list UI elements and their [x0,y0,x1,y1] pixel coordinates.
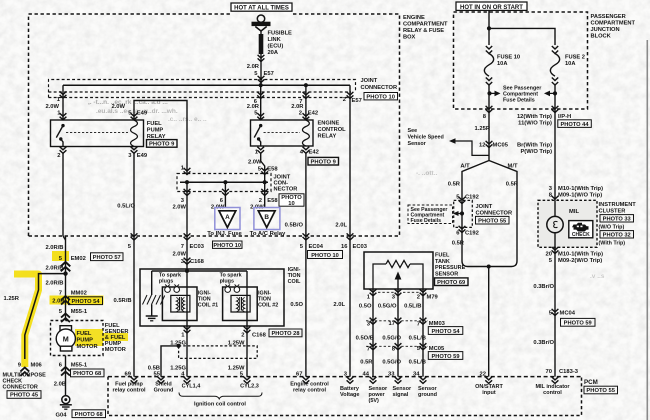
svg-text:0.5L/B: 0.5L/B [409,336,426,342]
svg-text:(ECU): (ECU) [268,44,284,50]
engine control relay E42 [251,120,314,146]
svg-text:2: 2 [57,153,60,159]
svg-text:JUNCTION: JUNCTION [591,27,620,33]
engine control relay label [318,121,347,140]
instrument cluster dashed box [538,200,597,247]
svg-text:COIL #2: COIL #2 [258,303,278,309]
svg-text:PHOTO 54: PHOTO 54 [431,329,460,335]
svg-text:E57: E57 [264,71,274,77]
svg-text:16: 16 [341,244,348,250]
node merge [487,265,491,269]
label Br / P wire colors [517,143,552,156]
svg-text:2.0R: 2.0R [291,104,304,110]
passenger compartment junction block (dashed box) [454,12,588,109]
connector MC04 pin5 [549,309,595,327]
svg-text:M55-1: M55-1 [71,363,88,369]
internal feed bus [152,270,247,272]
pin 1 entering E58 [184,168,191,175]
svg-text:C192: C192 [465,195,479,201]
svg-text:BOX: BOX [403,35,416,41]
svg-text:2.0R: 2.0R [247,64,260,70]
svg-text:signal: signal [393,392,409,398]
svg-text:17: 17 [389,321,395,327]
svg-text:Fuse Details: Fuse Details [411,218,442,224]
svg-text:2.0R: 2.0R [247,104,260,110]
svg-text:NECTOR: NECTOR [274,187,298,193]
PCM pin 70 C183-3 [546,369,579,375]
passenger compartment label [591,14,636,40]
svg-text:E58: E58 [267,198,278,204]
svg-text:0.3Br/O: 0.3Br/O [533,340,554,346]
svg-text:2.0R/B: 2.0R/B [45,281,63,287]
svg-text:(5V): (5V) [369,398,380,404]
node E58 pin6 [223,180,227,184]
svg-text:M55-1: M55-1 [71,309,88,315]
svg-text:PHOTO 57: PHOTO 57 [93,255,121,261]
svg-text:2: 2 [259,198,262,204]
svg-text:C168: C168 [190,259,205,265]
svg-text:-. ..ott..: -. ..ott.. [416,170,437,177]
svg-text:2: 2 [343,97,346,103]
node at E42 coil feed [304,83,308,87]
shield drain wire to PCM 55 [161,346,179,377]
svg-text:PHOTO 68: PHOTO 68 [73,371,101,377]
svg-text:7: 7 [367,347,370,353]
svg-text:FUSIBLE: FUSIBLE [268,31,293,37]
svg-text:RELAY & FUSE: RELAY & FUSE [403,28,444,34]
svg-text:FUEL: FUEL [435,253,450,259]
sensor wiper arrow [395,272,402,290]
svg-text:0.5R/B: 0.5R/B [114,298,132,304]
svg-text:SENSOR: SENSOR [435,271,458,277]
fuel pump relay E49 [51,120,144,147]
connector MM03 pins 3 17 7 [366,318,463,335]
main power bus wire [63,84,350,86]
svg-text:EC03: EC03 [353,244,368,250]
scan noise [0,0,1,1]
svg-text:2.0W: 2.0W [45,104,59,110]
svg-text:10A: 10A [497,61,507,67]
connector MM02 pin7 [59,291,87,305]
node C168 feed [185,269,189,273]
wire E57 pin7 to engine control relay coil [305,85,307,120]
svg-text:E49: E49 [137,153,148,159]
cable shield dashed loop [179,346,258,359]
svg-text:0.3Br/O: 0.3Br/O [533,284,554,290]
fuel pump relay bottom pins 2 / 3 E49 [57,147,148,159]
svg-text:2.0W: 2.0W [111,104,125,110]
sensor resistor [386,260,410,267]
right page border [646,40,648,420]
svg-text:M10-1(With Trip): M10-1(With Trip) [558,252,603,258]
svg-text:BLOCK: BLOCK [591,34,612,40]
label To spark plugs (coil 2) [220,273,242,285]
svg-text:0.5O/B: 0.5O/B [356,336,374,342]
svg-text:0.5R: 0.5R [448,182,461,188]
joint connector C192 label [476,204,513,224]
svg-text:PHOTO 68: PHOTO 68 [75,412,103,418]
svg-text:7: 7 [181,244,184,250]
connector EC04 pin5 [300,153,343,376]
branch to vehicle speed sensor [449,138,489,155]
wire E57 pin2 battery voltage drop (2.0L) [349,85,351,376]
connector E57 crossing [258,76,265,83]
svg-text:20: 20 [546,252,552,258]
svg-text:PUMP: PUMP [77,338,94,344]
wire labels row 3 [360,360,426,366]
svg-text:PHOTO 55: PHOTO 55 [586,388,615,394]
connector exit I/P-H [517,106,591,200]
svg-text:PHOTO 59: PHOTO 59 [431,354,459,360]
svg-text:2.0R: 2.0R [52,299,65,305]
ignition coil #1 label [198,291,218,309]
inner fuse-box dashed outline (top of relay area) [49,80,356,98]
svg-text:E57: E57 [352,98,362,104]
connector MC05 pins 7 8 5 [366,343,463,360]
svg-text:M09-1(W/O Trip): M09-1(W/O Trip) [558,193,602,199]
svg-text:2.0L: 2.0L [335,223,347,229]
engine control relay switch [254,124,262,146]
svg-text:FUEL: FUEL [77,331,92,337]
fuse 2 10A [550,46,559,109]
svg-text:CLUSTER: CLUSTER [599,209,626,215]
wire labels row 1 [359,304,422,310]
engine compartment box label [403,15,448,41]
svg-text:2: 2 [299,110,302,116]
fuel tank pressure sensor box [364,252,433,289]
wire E58 feed line to fuel pump relay coil [134,101,187,174]
svg-text:(W/O Trip): (W/O Trip) [599,225,625,231]
wire bus left corner down to fuel pump relay pin 1 [62,85,64,120]
wire E58 pin3 down to EC03 [186,182,188,271]
node E58 pin1 [185,180,189,184]
label 2.0R + PHOTO 54 [52,297,102,305]
svg-text:MOTOR: MOTOR [77,344,98,350]
svg-text:69: 69 [125,372,132,378]
MIL bulb [547,200,563,248]
fuse 10 10A [484,46,493,109]
connector C192 pin5 [456,195,479,204]
svg-text:10A: 10A [565,61,575,67]
engine control relay PHOTO 9 [308,157,339,165]
node shield drain [177,344,181,348]
svg-text:20A: 20A [268,50,278,56]
wire 2.0W to C168 pin3 [172,252,204,266]
svg-text:.v ..s: .v ..s [590,273,605,280]
fusible link FL(ECU) 20A [258,31,265,85]
shield drop wire [151,271,153,295]
svg-text:34: 34 [413,372,420,378]
svg-text:MC05: MC05 [493,143,509,149]
fusible link label [268,31,293,57]
svg-text:PHOTO 10: PHOTO 10 [311,253,339,259]
svg-text:FUSE 2: FUSE 2 [565,55,585,61]
svg-text:PRESSURE: PRESSURE [435,265,466,271]
svg-text:TANK: TANK [435,259,450,265]
svg-text:PHOTO 45: PHOTO 45 [10,393,38,399]
svg-text:44: 44 [363,372,370,378]
ignition coil #2 label [258,291,278,309]
svg-text:See: See [408,128,418,134]
highlight 2.0R PHOTO 54 (yellow) [50,296,104,305]
scan bleed-through ghost text [88,99,605,280]
svg-text:MOTOR: MOTOR [105,347,126,353]
svg-text:0.5G/O: 0.5G/O [382,336,401,342]
svg-text:1.25R: 1.25R [4,296,20,302]
svg-text:70: 70 [546,369,552,375]
spark tower chevrons coil 1 [165,285,179,287]
connector M06 pin9 [18,363,43,377]
svg-text:control: control [543,390,562,396]
svg-text:0.5R: 0.5R [452,241,465,247]
multipurpose check connector label [3,373,47,391]
sensor internal left leg [373,264,386,289]
wire through C192 [461,200,463,261]
ignition coil #1 unit [162,287,197,321]
node E58 pin5 [263,180,267,184]
svg-text:CONTROL: CONTROL [318,127,347,133]
svg-text:HOT AT ALL TIMES: HOT AT ALL TIMES [234,6,289,12]
connector M55-1 pin5 [59,309,88,322]
wire E42 pin1 to joint connector E58 [261,153,265,182]
svg-text:PUMP: PUMP [147,128,164,134]
svg-text:0.5G/O: 0.5G/O [378,304,397,310]
svg-text:plugs: plugs [220,279,234,285]
svg-text:(With Trip): (With Trip) [599,241,626,247]
multipurpose PHOTO 45 [7,391,41,399]
joint connector E58 bus [180,181,268,183]
wire below border to EM02 [65,236,67,321]
svg-text:M10-1(With Trip): M10-1(With Trip) [558,186,603,192]
ref triangle B box [254,208,280,230]
wire to multipurpose check connector M06 [25,274,66,359]
svg-text:0.5O: 0.5O [359,304,372,310]
joint connector E58 dashed box [177,174,271,192]
wire from HOT IN ON OR START [488,11,490,46]
connector EM02 pin5 [59,253,123,271]
label HOT IN ON OR START [456,2,527,11]
svg-text:22: 22 [480,372,486,378]
svg-text:MC04: MC04 [560,311,576,317]
svg-text:PHOTO 28: PHOTO 28 [271,331,299,337]
ground G04 label [56,410,106,419]
svg-text:2.0W: 2.0W [172,205,186,211]
connector exit pin 8 [475,106,493,161]
spark tower chevrons coil 2 [225,285,239,287]
svg-text:ground: ground [418,392,437,398]
svg-text:0.5L/B: 0.5L/B [404,304,421,310]
svg-text:Fuse Details: Fuse Details [503,98,535,104]
wire MIL control down [554,248,556,377]
svg-text:2.0W: 2.0W [248,160,262,166]
wire E57 pin6 to engine control relay switch [260,85,262,120]
fuse 2 label [565,55,585,68]
svg-text:E49: E49 [137,110,148,116]
svg-text:12: 12 [479,143,485,149]
svg-text:EM02: EM02 [71,256,86,262]
svg-text:COIL: COIL [288,279,302,285]
ignition coil outside label [288,267,302,285]
connector C192 pin6 [456,226,479,237]
svg-text:ENGINE: ENGINE [403,15,425,21]
svg-text:PHOTO 32: PHOTO 32 [603,233,631,239]
svg-text:To INJ. Fuse: To INJ. Fuse [207,231,242,237]
highlight FUEL PUMP MOTOR text (yellow) [75,329,128,346]
svg-text:CONNECTOR: CONNECTOR [3,385,38,391]
joint connector E57 dashed bus box [49,92,352,98]
svg-text:JOINT: JOINT [361,78,378,84]
PCM box (dashed) [108,377,582,416]
svg-text:G04: G04 [56,413,68,419]
svg-text:E58: E58 [267,167,278,173]
fuel pump relay coil [131,120,138,147]
svg-text:input: input [482,390,496,396]
PCM function labels [112,382,570,405]
svg-text:M09-2(W/O Trip): M09-2(W/O Trip) [558,258,602,264]
svg-text:EC04: EC04 [309,244,324,250]
svg-text:M79: M79 [427,295,439,301]
svg-text:CYL1,4: CYL1,4 [182,384,202,390]
ground G04 [60,396,72,410]
svg-text:PHOTO 10: PHOTO 10 [366,94,395,100]
fuel pump motor label [77,331,98,350]
connector crossing pin5 [131,233,138,240]
connector C168 pin1 [181,326,190,338]
svg-text:2.0R/B: 2.0R/B [45,265,63,271]
svg-text:0.5B/O: 0.5B/O [285,223,304,229]
highlight wire to M06 (yellow) [14,274,39,367]
node fuse feed [487,26,491,30]
engine compartment relay & fuse box (dashed border) [29,14,400,236]
node C192 [460,211,464,215]
joint connector E57 label [361,78,398,100]
wire coil2 primary down [246,271,248,377]
svg-text:7: 7 [417,322,420,328]
svg-text:MIL: MIL [569,209,579,215]
svg-text:2.0W: 2.0W [172,252,186,258]
see passenger fuse details note [487,86,557,104]
svg-text:RELAY: RELAY [318,134,337,140]
engine control relay mech link [264,132,301,134]
svg-text:P(W/O Trip): P(W/O Trip) [520,149,552,155]
svg-text:E42: E42 [309,150,319,156]
instrument cluster labels [599,202,637,247]
svg-text:C183-3: C183-3 [559,369,579,375]
svg-text:2.0L: 2.0L [333,302,345,308]
svg-text:PHOTO 33: PHOTO 33 [603,217,631,223]
svg-text:M: M [63,335,69,344]
svg-text:COMPARTMENT: COMPARTMENT [403,22,448,28]
fuel pump motor symbol [56,326,75,351]
wire fuel pump relay pin3 0.5L/O to PCM 69 [133,153,135,376]
shield ground wire [151,305,153,316]
svg-text:0.5R: 0.5R [506,182,519,188]
svg-text:INSTRUMENT: INSTRUMENT [599,202,637,208]
engine control relay bottom pins 1 / 4 E42 [255,147,319,156]
svg-text:plugs: plugs [159,279,173,285]
PCM label [584,379,618,394]
svg-text:Ignition coil control: Ignition coil control [194,402,246,408]
svg-text:0.5R: 0.5R [360,360,373,366]
see vehicle speed sensor label [408,128,444,147]
wire labels row 2 [356,336,426,342]
fuel sender label [105,323,129,353]
node junction [63,271,67,275]
see passenger compartment fuse details box [408,205,462,224]
svg-text:12(With Trip): 12(With Trip) [517,114,552,120]
svg-text:COIL #1: COIL #1 [198,303,218,309]
svg-text:Br(With Trip): Br(With Trip) [517,143,552,149]
fuse feed bus [489,28,555,45]
svg-text:PHOTO 44: PHOTO 44 [560,122,589,128]
connector MC05 pin12 [479,141,509,149]
svg-text:PASSENGER: PASSENGER [591,14,626,20]
svg-text:PHOTO 9: PHOTO 9 [311,159,337,165]
svg-text:LINK: LINK [268,37,282,43]
svg-text:ENGINE: ENGINE [318,121,340,127]
engine control relay coil [302,120,309,146]
sensor PHOTO 69 [435,278,469,286]
connector EC03 pin16 [341,233,368,249]
ignition coil assembly box [140,269,284,326]
svg-text:To A/C Relay: To A/C Relay [250,231,286,237]
svg-text:10: 10 [288,201,294,207]
svg-text:Sensor: Sensor [408,141,427,147]
merge A/T M/T to ON/START wire [462,261,517,267]
svg-text:M06: M06 [31,363,43,369]
svg-text:relay control: relay control [293,388,326,394]
A/T M/T split [462,161,517,262]
svg-text:I/P-H: I/P-H [558,114,571,120]
svg-text:CONNECTOR: CONNECTOR [361,85,398,91]
svg-text:PHOTO 55: PHOTO 55 [478,218,506,224]
wire coil1 primary down [186,271,188,377]
svg-text:C192: C192 [465,231,479,237]
svg-text:PHOTO 69: PHOTO 69 [437,280,465,286]
svg-text:A: A [225,214,230,221]
cluster exit pins [546,247,604,264]
svg-text:Ground: Ground [154,388,174,394]
PCM pin arrows [131,377,559,384]
svg-text:0.5L/B: 0.5L/B [409,360,426,366]
connector C168 pin2 [241,326,302,338]
svg-text:PCM: PCM [584,379,598,386]
svg-text:CYL2,3: CYL2,3 [240,384,259,390]
svg-text:FUEL: FUEL [147,121,162,127]
svg-text:Voltage: Voltage [340,392,359,398]
svg-text:M/T: M/T [508,164,518,170]
shield hatch block [143,295,165,305]
wire label 2.0R, pin 5 E57 [247,64,274,77]
node at E57 main drop [259,83,263,87]
label To spark plugs (coil 1) [159,273,181,285]
ref triangle A box [215,208,240,230]
connector M79 pins 1 3 2 [367,289,439,300]
joint connector E58 label [274,175,305,208]
svg-text:67: 67 [296,372,302,378]
label HOT AT ALL TIMES [231,3,292,12]
ignition coil control brace [179,393,262,399]
fuel pump relay PHOTO 9 [147,140,178,148]
fuel pump motor dashed box [51,321,104,356]
svg-text:2.0R/B: 2.0R/B [45,245,63,251]
svg-text:7: 7 [59,291,62,297]
svg-text:HOT IN ON OR START: HOT IN ON OR START [460,5,523,11]
sensor wires down [373,289,423,377]
svg-text:COMPARTMENT: COMPARTMENT [591,21,636,27]
svg-text:PHOTO 54: PHOTO 54 [71,299,100,305]
svg-text:PHOTO 10: PHOTO 10 [213,243,241,249]
